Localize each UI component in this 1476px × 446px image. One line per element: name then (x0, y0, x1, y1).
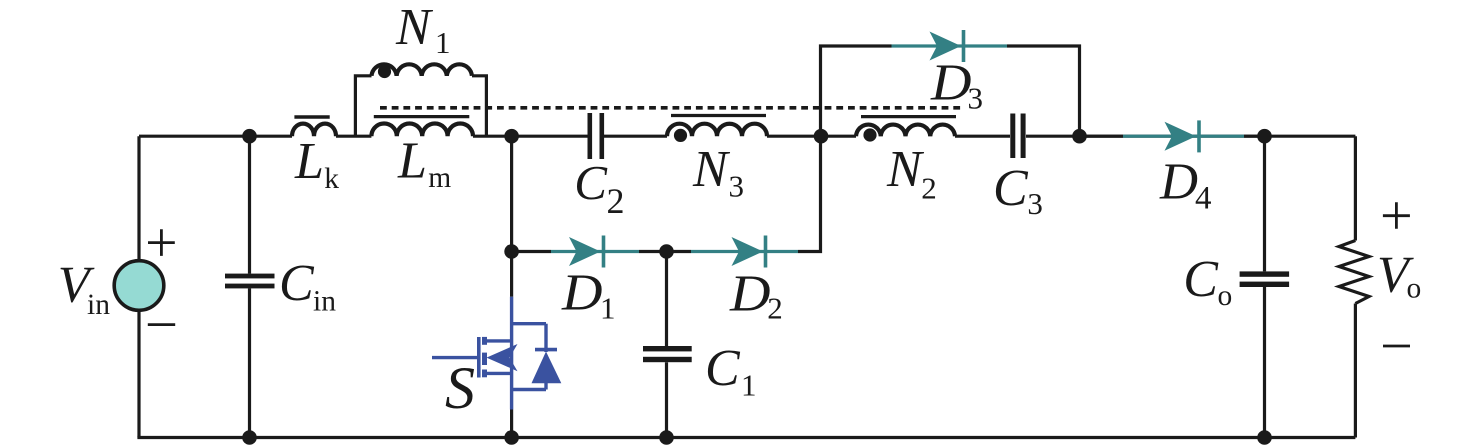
svg-text:in: in (313, 286, 336, 318)
svg-text:C: C (1183, 251, 1219, 308)
svg-text:D: D (1159, 154, 1198, 211)
svg-text:C: C (993, 160, 1029, 217)
svg-text:3: 3 (968, 81, 984, 116)
svg-text:C: C (705, 340, 741, 397)
svg-text:1: 1 (741, 368, 757, 403)
svg-text:D: D (729, 266, 771, 323)
svg-text:C: C (574, 155, 608, 210)
svg-text:C: C (279, 255, 315, 312)
svg-text:L: L (397, 133, 427, 190)
svg-text:1: 1 (600, 291, 616, 326)
svg-text:3: 3 (1027, 186, 1043, 221)
svg-text:L: L (294, 133, 324, 190)
svg-text:2: 2 (921, 171, 937, 206)
svg-text:in: in (87, 289, 110, 321)
svg-text:N: N (395, 0, 434, 56)
svg-text:N: N (886, 141, 925, 198)
svg-text:S: S (445, 355, 475, 421)
svg-text:3: 3 (729, 169, 745, 204)
svg-text:m: m (428, 162, 451, 194)
svg-text:D: D (930, 55, 972, 112)
svg-text:1: 1 (435, 25, 451, 60)
svg-text:k: k (324, 163, 339, 195)
svg-text:o: o (1407, 273, 1422, 305)
svg-text:2: 2 (607, 181, 625, 221)
svg-text:4: 4 (1195, 181, 1212, 217)
svg-text:o: o (1218, 280, 1233, 312)
svg-text:2: 2 (767, 291, 783, 326)
svg-text:D: D (561, 265, 603, 322)
svg-text:N: N (692, 141, 731, 198)
